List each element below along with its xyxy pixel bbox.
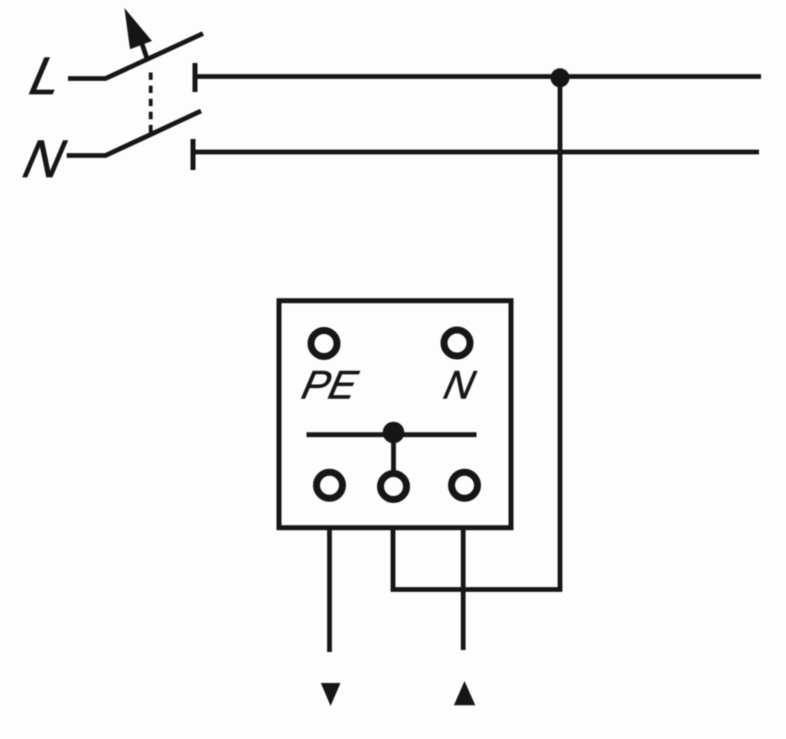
svg-text:PE: PE — [298, 362, 363, 407]
svg-text:N: N — [440, 362, 480, 407]
svg-text:N: N — [18, 130, 70, 189]
svg-text:L: L — [25, 47, 68, 106]
